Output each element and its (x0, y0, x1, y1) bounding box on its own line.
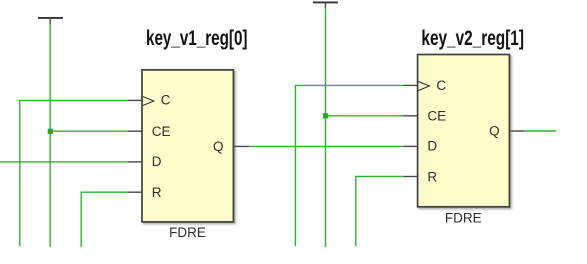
clock triangle U2 (418, 82, 429, 91)
flip-flop key_v2_reg[1] body (418, 55, 510, 207)
pin stub C (U2) (404, 84, 418, 86)
wire vertical R net left (x=81) (81, 192, 127, 247)
wire vertical C net left (x=20) (20, 100, 128, 246)
wire vertical R net right (x=356) (356, 177, 404, 247)
pin stub D (U1) (128, 161, 142, 163)
wire vertical clk net left (x=50) (49, 24, 51, 247)
pin stub R (U1) (128, 191, 142, 193)
pin stub Q (U1) (234, 145, 250, 147)
svg-text:D: D (152, 154, 162, 169)
wire CE horizontal right (326, 115, 404, 117)
flip-flop key_v1_reg[0] body (142, 70, 233, 222)
pin stub R (U2) (404, 176, 418, 178)
svg-text:D: D (427, 138, 437, 153)
wire vertical clk net right (x=325) (325, 8, 327, 247)
pin stub C (U1) (128, 99, 142, 101)
svg-text:Q: Q (489, 123, 500, 138)
svg-text:CE: CE (152, 124, 171, 139)
wire CE horizontal left (50, 130, 127, 132)
svg-text:FDRE: FDRE (169, 225, 206, 240)
svg-text:Q: Q (213, 139, 224, 154)
svg-text:key_v2_reg[1]: key_v2_reg[1] (421, 27, 524, 50)
svg-text:FDRE: FDRE (445, 210, 482, 225)
net terminator T (top-left) (38, 18, 63, 24)
wire Q2 output (524, 130, 556, 132)
svg-text:CE: CE (427, 108, 446, 123)
svg-text:C: C (436, 78, 446, 93)
junction on CE net right (323, 113, 328, 118)
net terminator T (top-middle) (313, 2, 338, 8)
pin stub CE (U1) (128, 130, 142, 132)
pin stub D (U2) (404, 145, 418, 147)
junction on CE net left (48, 129, 53, 134)
wire Q1 to D2 (250, 145, 404, 147)
svg-text:R: R (152, 185, 162, 200)
clock triangle U1 (143, 97, 154, 106)
pin stub CE (U2) (404, 115, 418, 117)
wire D horizontal left (from page edge) (0, 161, 128, 163)
svg-text:R: R (427, 169, 437, 184)
pin stub Q (U2) (510, 130, 525, 132)
wire vertical C net right (x=295) (295, 85, 403, 246)
svg-text:C: C (161, 93, 171, 108)
svg-text:key_v1_reg[0]: key_v1_reg[0] (146, 27, 248, 50)
